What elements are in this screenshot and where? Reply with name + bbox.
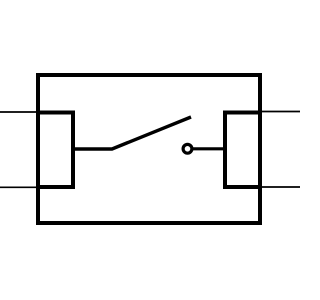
- wire (right top lead): [258, 111, 300, 113]
- wire (contact to right pad): [192, 147, 227, 150]
- right terminal pad: [225, 113, 260, 188]
- left terminal pad: [38, 113, 73, 188]
- wire (right bottom lead): [258, 186, 300, 188]
- wire (left top lead): [0, 111, 40, 113]
- wire (left bottom lead): [0, 186, 40, 188]
- contact circle: [183, 144, 192, 153]
- switch lever arm: [73, 117, 191, 149]
- switch enclosure box: [38, 75, 260, 223]
